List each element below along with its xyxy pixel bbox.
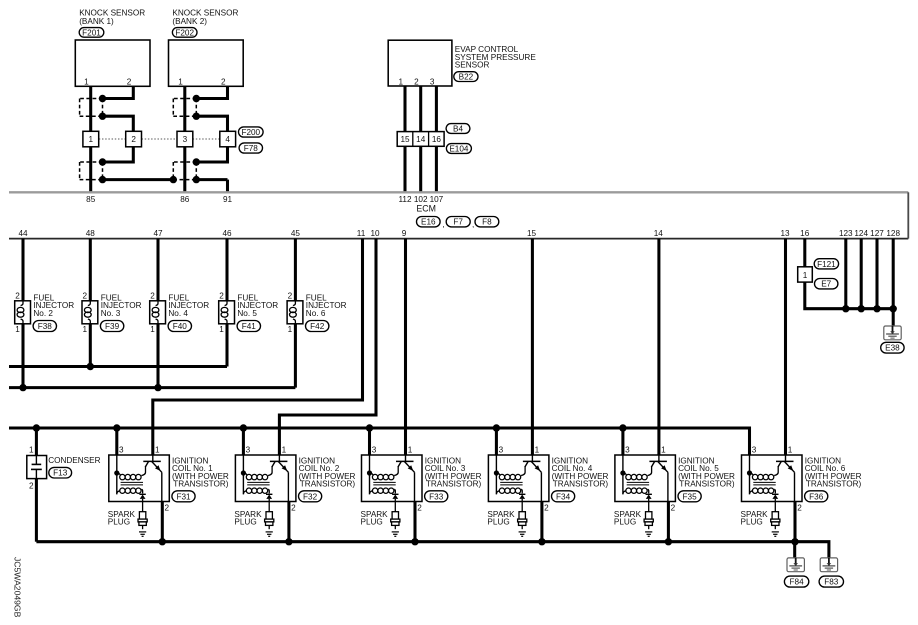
svg-text:1: 1 <box>661 445 666 454</box>
wire supply bus to ignition coil No. 3 pin 3 <box>368 428 371 455</box>
wire knock sensor 1 pin 1 to ECM pin 85 <box>89 86 92 192</box>
svg-text:1: 1 <box>155 445 160 454</box>
svg-text:(BANK 2): (BANK 2) <box>172 17 207 26</box>
connector F121 <box>814 259 838 269</box>
ECM top pin labels 85 86 91 112 102 107 <box>86 195 444 204</box>
svg-text:10: 10 <box>370 229 380 238</box>
connector F31 <box>172 491 195 502</box>
connector F8 <box>475 217 499 227</box>
svg-text:16: 16 <box>432 135 442 144</box>
fuel injector No. 3 <box>82 292 142 334</box>
wire injector return bus B <box>9 386 295 389</box>
connector F34 <box>552 491 575 502</box>
connector F84 <box>784 576 808 587</box>
ignition coil No. 3 (with power transistor) <box>362 445 482 512</box>
svg-text:TRANSISTOR): TRANSISTOR) <box>173 479 229 488</box>
svg-text:2: 2 <box>797 503 802 512</box>
svg-text:TRANSISTOR): TRANSISTOR) <box>426 479 482 488</box>
svg-text:14: 14 <box>416 135 426 144</box>
wire ignition coil No. 6 pin 2 to ground bus <box>793 502 796 542</box>
node ground run junctions <box>842 305 897 312</box>
ground symbol E38 <box>884 326 901 340</box>
svg-text:2: 2 <box>219 292 224 301</box>
svg-text:PLUG: PLUG <box>108 518 130 527</box>
svg-text:128: 128 <box>886 229 900 238</box>
svg-text:F34: F34 <box>556 492 571 501</box>
spark plug for ignition coil No. 6 <box>741 502 780 537</box>
svg-text:3: 3 <box>183 135 188 144</box>
wire fuel injector No. 3 return <box>89 324 92 367</box>
connector E104 <box>446 144 471 154</box>
spark plug for ignition coil No. 2 <box>234 502 273 537</box>
wire fuel injector No. 2 return <box>21 324 24 388</box>
connector F42 <box>306 321 329 332</box>
svg-text:E7: E7 <box>821 280 831 289</box>
svg-text:86: 86 <box>180 195 190 204</box>
svg-text:2: 2 <box>83 292 88 301</box>
svg-text:F200: F200 <box>241 128 260 137</box>
svg-text:85: 85 <box>86 195 96 204</box>
ignition coil No. 5 (with power transistor) <box>615 445 735 512</box>
wire ignition coil No. 4 pin 2 to ground bus <box>540 502 543 542</box>
EVAP control system pressure sensor box <box>388 40 536 86</box>
svg-text:B4: B4 <box>453 125 463 134</box>
svg-text:TRANSISTOR): TRANSISTOR) <box>553 479 609 488</box>
connector F200 <box>239 127 264 137</box>
connector F33 <box>425 491 448 502</box>
wire supply bus to ignition coil No. 1 pin 3 <box>115 428 118 455</box>
connector B22 <box>454 72 478 82</box>
wire ECM pin 16 ground run <box>805 239 893 309</box>
intermediate connector terminal 1 (F121/E7) <box>798 267 813 282</box>
svg-text:CONDENSER: CONDENSER <box>48 456 100 465</box>
condenser F13 <box>27 446 101 491</box>
ignition coil No. 4 (with power transistor) <box>488 445 608 512</box>
svg-text:1: 1 <box>29 446 34 455</box>
svg-text:107: 107 <box>430 195 444 204</box>
connector F13 <box>49 467 72 478</box>
wire ignition coil No. 1 pin 2 to ground bus <box>161 502 164 542</box>
svg-text:F13: F13 <box>53 469 68 478</box>
svg-text:2: 2 <box>131 135 136 144</box>
wire EVAP sensor pin 2 to ECM pin 102 <box>419 86 422 192</box>
connector F36 <box>805 491 828 502</box>
svg-text:1: 1 <box>398 78 403 87</box>
node shield-2 / ground-run junction <box>170 176 177 183</box>
svg-text:KNOCK SENSOR: KNOCK SENSOR <box>172 9 238 18</box>
svg-text:4: 4 <box>225 135 230 144</box>
connector F32 <box>299 491 322 502</box>
svg-text:F40: F40 <box>173 322 188 331</box>
shield (dashed) around knock sensor 2 lower wires <box>173 162 196 180</box>
svg-text:F39: F39 <box>105 322 120 331</box>
svg-text:TRANSISTOR): TRANSISTOR) <box>300 479 356 488</box>
svg-text:1: 1 <box>219 325 224 334</box>
svg-text:F7: F7 <box>453 218 463 227</box>
svg-text:PLUG: PLUG <box>614 518 636 527</box>
svg-text:1: 1 <box>89 135 94 144</box>
wire injector return bus A <box>9 365 227 368</box>
svg-text:2: 2 <box>288 292 293 301</box>
svg-text:46: 46 <box>222 229 232 238</box>
wire knock sensor 2 pin 2 to shield junction <box>196 86 227 98</box>
svg-text:F32: F32 <box>303 492 318 501</box>
svg-text:TRANSISTOR): TRANSISTOR) <box>679 479 735 488</box>
ignition coil No. 2 (with power transistor) <box>235 445 355 512</box>
svg-text:127: 127 <box>870 229 884 238</box>
svg-text:,: , <box>472 220 474 229</box>
wire ECM pin 14 to ignition coil No. 5 pin 1 <box>657 239 660 455</box>
intermediate connector terminal 3 (F200/F78) <box>177 131 193 147</box>
node shield junction dots, knock sensor 1 <box>99 95 106 184</box>
wire knock sensor 1 pin 2 to shield junction <box>103 86 134 98</box>
svg-text:3: 3 <box>430 78 435 87</box>
wire ignition ground bus <box>36 542 829 558</box>
svg-text:F78: F78 <box>244 144 259 153</box>
svg-text:F38: F38 <box>38 322 53 331</box>
svg-text:B22: B22 <box>459 73 474 82</box>
svg-text:3: 3 <box>752 445 757 454</box>
intermediate connector terminals 15 14 16 <box>397 132 444 147</box>
svg-text:3: 3 <box>119 445 124 454</box>
ECM box (top edge) <box>9 191 908 193</box>
intermediate connector terminal 4 (F200/F78) <box>220 131 236 147</box>
svg-text:1: 1 <box>408 445 413 454</box>
svg-text:15: 15 <box>527 229 537 238</box>
svg-text:112: 112 <box>398 195 411 204</box>
wire ignition coil No. 3 pin 2 to ground bus <box>413 502 416 542</box>
node shield junction dots, knock sensor 2 <box>193 95 200 184</box>
connector E16 <box>417 217 445 230</box>
connector F41 <box>237 321 260 332</box>
svg-text:F41: F41 <box>242 322 257 331</box>
svg-text:47: 47 <box>153 229 163 238</box>
svg-text:1: 1 <box>282 445 287 454</box>
wire shield ground run to ECM pin 91 <box>103 180 228 193</box>
svg-text:F84: F84 <box>790 578 805 587</box>
intermediate connector terminal 1 (F200/F78) <box>83 131 99 147</box>
spark plug for ignition coil No. 3 <box>361 502 400 537</box>
svg-text:1: 1 <box>288 325 293 334</box>
wire connector box 4 to lower shield junction <box>196 147 227 162</box>
knock sensor (bank 1) box <box>75 9 150 87</box>
wire ignition coil supply bus <box>9 428 750 455</box>
svg-text:3: 3 <box>246 445 251 454</box>
wire ECM pin 45 to fuel injector No. 6 <box>294 239 297 301</box>
svg-text:13: 13 <box>780 229 790 238</box>
svg-text:11: 11 <box>357 229 366 238</box>
svg-text:No. 6: No. 6 <box>306 309 326 318</box>
svg-text:E38: E38 <box>885 344 900 353</box>
figure code JC5WA2049GB <box>13 557 23 618</box>
ground symbol F84 <box>787 558 804 572</box>
svg-text:1: 1 <box>178 78 183 87</box>
svg-text:44: 44 <box>18 229 28 238</box>
svg-text:No. 4: No. 4 <box>168 309 188 318</box>
shield (dashed) around knock sensor 2 upper wires <box>173 99 196 117</box>
svg-text:1: 1 <box>15 325 20 334</box>
wire ECM pin 9 to ignition coil No. 3 pin 1 <box>404 239 407 455</box>
spark plug for ignition coil No. 4 <box>487 502 526 537</box>
ECM bottom pin labels <box>18 229 900 238</box>
svg-text:2: 2 <box>15 292 20 301</box>
svg-text:E104: E104 <box>449 145 469 154</box>
wire ECM pin 15 to ignition coil No. 4 pin 1 <box>531 239 534 455</box>
svg-text:F202: F202 <box>175 28 194 37</box>
svg-text:PLUG: PLUG <box>361 518 383 527</box>
svg-text:1: 1 <box>535 445 540 454</box>
shield (dashed) around knock sensor 1 lower wires <box>80 162 103 180</box>
spark plug for ignition coil No. 5 <box>614 502 653 537</box>
connector F39 <box>100 321 123 332</box>
svg-text:2: 2 <box>165 503 170 512</box>
svg-text:2: 2 <box>544 503 549 512</box>
wire supply bus to condenser pin 1 <box>35 428 38 456</box>
svg-text:No. 3: No. 3 <box>101 309 121 318</box>
wire supply bus to ignition coil No. 5 pin 3 <box>621 428 624 455</box>
svg-text:,: , <box>442 220 444 229</box>
svg-text:3: 3 <box>499 445 504 454</box>
svg-text:2: 2 <box>127 78 132 87</box>
svg-text:2: 2 <box>29 481 34 490</box>
svg-text:PLUG: PLUG <box>234 518 256 527</box>
ignition coil No. 1 (with power transistor) <box>109 445 229 512</box>
wire connector box 2 to lower shield junction <box>103 147 134 162</box>
svg-text:PLUG: PLUG <box>487 518 509 527</box>
wire ECM pin 11 to ignition coil No. 1 pin 1 <box>153 239 363 455</box>
svg-text:1: 1 <box>803 271 808 280</box>
svg-text:F121: F121 <box>817 260 836 269</box>
svg-text:48: 48 <box>86 229 96 238</box>
connector F38 <box>33 321 56 332</box>
svg-text:F31: F31 <box>176 492 191 501</box>
svg-text:No. 2: No. 2 <box>33 309 53 318</box>
svg-text:F36: F36 <box>809 492 824 501</box>
svg-text:3: 3 <box>372 445 377 454</box>
svg-text:No. 5: No. 5 <box>237 309 257 318</box>
dotted link between intermediate connector terminals <box>99 138 220 140</box>
svg-text:TRANSISTOR): TRANSISTOR) <box>806 479 862 488</box>
wire ECM pin 48 to fuel injector No. 3 <box>89 239 92 301</box>
svg-text:123: 123 <box>839 229 853 238</box>
svg-text:ECM: ECM <box>416 204 436 214</box>
node injector bus junctions <box>19 363 161 392</box>
intermediate connector terminal 2 (F200/F78) <box>126 131 142 147</box>
fuel injector No. 4 <box>150 292 210 334</box>
ignition coil No. 6 (with power transistor) <box>742 445 862 512</box>
connector F202 <box>172 28 197 38</box>
node supply bus junctions <box>33 424 627 431</box>
svg-text:JC5WA2049GB: JC5WA2049GB <box>13 557 23 618</box>
wire fuel injector No. 4 return <box>156 324 159 388</box>
ECM box (bottom edge) <box>9 238 908 240</box>
svg-text:SENSOR: SENSOR <box>455 61 490 70</box>
fuel injector No. 5 <box>219 292 279 334</box>
fuel injector No. 2 <box>15 292 75 334</box>
ECM label <box>416 204 436 214</box>
svg-text:3: 3 <box>625 445 630 454</box>
connector F35 <box>678 491 701 502</box>
svg-text:124: 124 <box>854 229 868 238</box>
wire supply bus to ignition coil No. 4 pin 3 <box>495 428 498 455</box>
svg-text:PLUG: PLUG <box>741 518 763 527</box>
wire ECM pin 124 to ground run <box>860 239 863 309</box>
wire coil No.6 ground to F84 <box>793 542 796 558</box>
svg-text:9: 9 <box>402 229 407 238</box>
wire fuel injector No. 5 return <box>225 324 228 367</box>
ECM box (right edge) <box>907 192 909 238</box>
svg-text:14: 14 <box>654 229 664 238</box>
svg-text:2: 2 <box>221 78 226 87</box>
wire knock sensor 2 pin 1 to ECM pin 86 <box>183 86 186 192</box>
wire ECM pin 10 to ignition coil No. 2 pin 1 <box>279 239 376 455</box>
svg-text:16: 16 <box>800 229 810 238</box>
connector E7 <box>815 279 838 289</box>
wire fuel injector No. 6 return <box>294 324 297 388</box>
wire ECM pin 47 to fuel injector No. 4 <box>156 239 159 301</box>
wire EVAP sensor pin 1 to ECM pin 112 <box>403 86 406 192</box>
knock sensor (bank 2) box <box>169 9 244 87</box>
wire ignition coil No. 2 pin 2 to ground bus <box>287 502 290 542</box>
wire ECM pin 127 to ground run <box>875 239 878 309</box>
svg-text:102: 102 <box>414 195 428 204</box>
svg-text:F201: F201 <box>82 28 101 37</box>
wire EVAP sensor pin 3 to ECM pin 107 <box>435 86 438 192</box>
connector F83 <box>819 576 843 587</box>
wire ECM pin 46 to fuel injector No. 5 <box>225 239 228 301</box>
svg-text:2: 2 <box>671 503 676 512</box>
svg-text:2: 2 <box>414 78 419 87</box>
node ground bus junctions at coil pin 2 <box>159 538 799 545</box>
wire ECM pin 44 to fuel injector No. 2 <box>21 239 24 301</box>
shield (dashed) around knock sensor 1 upper wires <box>80 99 103 117</box>
svg-text:15: 15 <box>400 135 410 144</box>
connector F7 <box>446 217 474 230</box>
svg-text:F33: F33 <box>429 492 444 501</box>
svg-text:F83: F83 <box>824 578 839 587</box>
svg-text:1: 1 <box>788 445 793 454</box>
svg-text:F42: F42 <box>310 322 325 331</box>
wire supply bus to ignition coil No. 2 pin 3 <box>242 428 245 455</box>
svg-text:91: 91 <box>223 195 233 204</box>
svg-text:2: 2 <box>291 503 296 512</box>
wire ECM pin 123 to ground run <box>844 239 847 309</box>
wire ECM pin 13 to ignition coil No. 6 pin 1 <box>784 239 787 455</box>
spark plug for ignition coil No. 1 <box>108 502 147 537</box>
wire ECM pin 128 to ground E38 <box>892 239 895 326</box>
connector F201 <box>79 28 104 38</box>
connector F78 <box>239 143 262 153</box>
svg-text:1: 1 <box>83 325 88 334</box>
fuel injector No. 6 <box>287 292 347 334</box>
wire condenser pin 2 to bottom bus <box>35 479 38 542</box>
svg-text:(BANK 1): (BANK 1) <box>79 17 114 26</box>
connector F40 <box>168 321 191 332</box>
svg-text:2: 2 <box>150 292 155 301</box>
ground symbol F83 <box>820 558 837 572</box>
connector B4 <box>446 124 470 134</box>
wire shield junction to connector box 4 <box>196 116 227 131</box>
svg-text:45: 45 <box>291 229 301 238</box>
svg-text:1: 1 <box>84 78 89 87</box>
wire ignition coil No. 5 pin 2 to ground bus <box>667 502 670 542</box>
svg-text:1: 1 <box>150 325 155 334</box>
connector E38 <box>881 342 904 353</box>
wire shield junction to connector box 2 <box>103 116 134 131</box>
svg-text:F8: F8 <box>482 218 492 227</box>
svg-text:F35: F35 <box>683 492 698 501</box>
svg-text:E16: E16 <box>421 218 436 227</box>
svg-text:KNOCK SENSOR: KNOCK SENSOR <box>79 9 145 18</box>
svg-text:2: 2 <box>417 503 422 512</box>
